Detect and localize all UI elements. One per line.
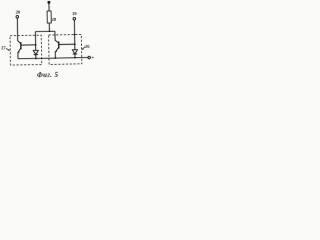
svg-text:26: 26 [85, 44, 90, 49]
svg-text:19: 19 [72, 11, 77, 16]
svg-text:27: 27 [1, 45, 6, 50]
svg-text:20: 20 [15, 10, 20, 15]
svg-text:28: 28 [51, 17, 56, 22]
svg-text:Фиг. 5: Фиг. 5 [37, 72, 59, 79]
